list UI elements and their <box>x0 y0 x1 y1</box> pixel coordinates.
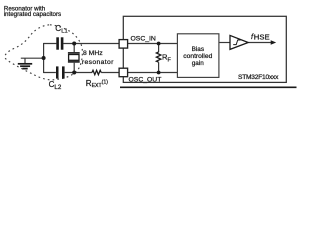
svg-text:integrated capacitors: integrated capacitors <box>4 11 61 18</box>
svg-text:CL2: CL2 <box>49 80 62 91</box>
svg-text:REXT(1): REXT(1) <box>86 79 108 89</box>
svg-text:CL1: CL1 <box>55 24 68 34</box>
svg-text:OSC_OUT: OSC_OUT <box>129 76 162 83</box>
svg-text:HSE: HSE <box>254 33 270 42</box>
svg-text:RF: RF <box>162 52 171 63</box>
svg-text:8 MHz: 8 MHz <box>83 50 103 57</box>
svg-text:STM32F10xxx: STM32F10xxx <box>238 74 279 81</box>
svg-text:resonator: resonator <box>82 59 114 66</box>
svg-text:gain: gain <box>192 60 205 67</box>
svg-text:OSC_IN: OSC_IN <box>131 35 156 42</box>
